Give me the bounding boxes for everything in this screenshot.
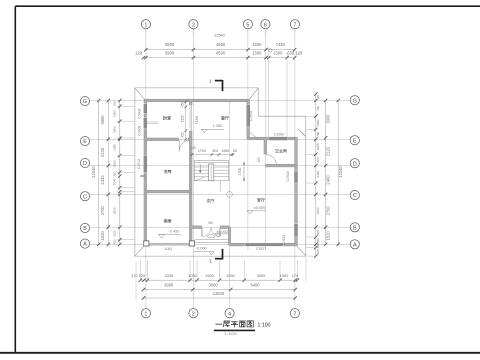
svg-text:4500: 4500: [216, 42, 226, 47]
right extension stubs: [306, 116, 317, 256]
svg-text:C: C: [353, 193, 357, 199]
axis bubbles bottom: [141, 309, 299, 318]
rolling door JLM: [149, 243, 189, 245]
svg-text:2430: 2430: [100, 175, 105, 185]
svg-text:E: E: [83, 139, 87, 145]
bottom dim row2: [144, 289, 296, 291]
svg-text:630: 630: [287, 50, 295, 55]
svg-text:120: 120: [316, 94, 320, 99]
svg-text:1350: 1350: [113, 110, 117, 117]
svg-text:3000: 3000: [257, 273, 266, 278]
window C0608 west: [144, 118, 147, 128]
svg-text:C0908: C0908: [249, 111, 253, 121]
window C0908 west: [144, 104, 147, 113]
svg-text:C1512: C1512: [137, 159, 141, 169]
svg-text:1050: 1050: [188, 273, 197, 278]
svg-text:-0.450: -0.450: [169, 230, 180, 234]
svg-text:3000: 3000: [209, 282, 219, 287]
svg-text:1520: 1520: [326, 231, 331, 241]
bottom extension stubs: [136, 257, 306, 299]
svg-text:1500: 1500: [252, 50, 262, 55]
svg-text:2: 2: [192, 311, 195, 317]
grid lines: [90, 29, 351, 309]
door on E wall arc: [179, 140, 191, 152]
wall: hall west x=190.7 lower: [189, 139, 192, 245]
svg-text:7430: 7430: [276, 42, 286, 47]
svg-text:C: C: [83, 194, 87, 200]
axis bubbles top: [141, 20, 299, 33]
svg-text:2700: 2700: [326, 206, 331, 216]
svg-text:330: 330: [113, 171, 117, 176]
sliding door TLM2: [190, 105, 191, 131]
window C0918 east: [295, 172, 298, 183]
svg-text:A: A: [83, 242, 87, 248]
svg-text:1:100: 1:100: [258, 323, 271, 329]
wall stub left y=176: [140, 175, 145, 177]
svg-text:12240: 12240: [338, 166, 343, 178]
svg-text:1500: 1500: [113, 126, 117, 133]
svg-text:1850: 1850: [316, 119, 320, 126]
wall: bathroom south y=165.6: [265, 164, 297, 167]
room label dining: [221, 116, 228, 119]
svg-text:1700: 1700: [198, 149, 206, 153]
room label study: [164, 170, 171, 173]
svg-text:B: B: [83, 226, 87, 232]
left dim total 12240: [98, 101, 100, 245]
interior dim 1700 vertical: [238, 162, 245, 182]
top extension stubs: [269, 47, 287, 139]
svg-text:C1506: C1506: [274, 133, 284, 137]
porch steps: [195, 239, 228, 242]
top dim row2: [144, 57, 295, 59]
svg-text:1520: 1520: [100, 231, 105, 241]
svg-text:600: 600: [212, 149, 218, 153]
svg-text:5400: 5400: [250, 282, 260, 287]
svg-text:7: 7: [293, 311, 296, 317]
svg-text:3560: 3560: [100, 115, 105, 125]
svg-text:510: 510: [113, 101, 117, 106]
node circle C4: [227, 192, 233, 198]
eave outline: [135, 88, 306, 256]
svg-text:1.260: 1.260: [213, 124, 223, 128]
svg-text:D: D: [353, 161, 357, 167]
svg-text:5900: 5900: [165, 42, 175, 47]
svg-text:1500: 1500: [205, 273, 214, 278]
svg-text:6: 6: [264, 22, 267, 28]
svg-text:2625: 2625: [316, 143, 320, 150]
svg-text:750: 750: [316, 131, 320, 136]
room label hall: [207, 199, 214, 202]
wall: east-wing north y=138.5: [248, 137, 297, 140]
svg-text:3300: 3300: [326, 114, 331, 124]
svg-text:±0.000: ±0.000: [216, 230, 228, 234]
svg-text:1120: 1120: [113, 230, 117, 237]
wall: E-axis interior y=139.3: [144, 138, 192, 141]
svg-text:2900: 2900: [316, 207, 320, 214]
svg-text:M3: M3: [257, 157, 261, 162]
interior dim 1700/600/1080/60: [191, 146, 237, 156]
right dim mid chain: [325, 101, 327, 245]
svg-text:A: A: [353, 242, 357, 248]
room label bedroom: [163, 116, 170, 119]
svg-text:4: 4: [228, 311, 231, 317]
wall: garage/study divider y=191.6: [144, 190, 192, 193]
svg-text:5: 5: [246, 22, 249, 28]
door M3 leaf+arc: [265, 154, 276, 165]
svg-text:1500: 1500: [280, 273, 289, 278]
svg-text:120: 120: [295, 50, 303, 55]
svg-text:2: 2: [192, 22, 195, 28]
top dim row1: [146, 49, 295, 51]
bottom dim row3: [144, 297, 296, 299]
svg-text:12540: 12540: [213, 291, 225, 296]
svg-text:1080: 1080: [221, 149, 229, 153]
stair: [194, 161, 228, 192]
window C0908 NE: [247, 105, 257, 138]
svg-text:G: G: [353, 98, 357, 104]
svg-text:400: 400: [316, 157, 320, 162]
bottom dim row1: [140, 279, 297, 281]
svg-text:JLM1: JLM1: [164, 247, 172, 251]
left dim inner chain: [119, 101, 121, 245]
section mark 1 bottom: [209, 249, 223, 264]
svg-text:3330: 3330: [165, 273, 174, 278]
svg-text:G: G: [83, 99, 87, 105]
svg-text:C0608: C0608: [138, 126, 142, 136]
window C1512 west: [144, 156, 147, 172]
svg-text:120: 120: [135, 50, 143, 55]
svg-text:120: 120: [139, 273, 146, 278]
svg-text:2120: 2120: [181, 115, 185, 122]
svg-text:170: 170: [131, 273, 138, 278]
svg-text:3900: 3900: [164, 282, 174, 287]
wall: hall south B-axis: [191, 226, 231, 245]
svg-text:450: 450: [181, 101, 185, 107]
svg-text:2920: 2920: [113, 207, 117, 214]
svg-text:1: 1: [209, 259, 212, 264]
door M0 double leaves: [202, 228, 220, 237]
svg-text:C0915: C0915: [282, 235, 286, 245]
left extension stubs: [117, 106, 136, 240]
svg-text:750: 750: [316, 105, 320, 110]
room label garage: [164, 219, 172, 223]
svg-text:4500: 4500: [216, 50, 226, 55]
window C3327: [245, 243, 282, 246]
svg-text:1:100: 1:100: [224, 332, 237, 336]
wall: north G-axis: [144, 99, 249, 102]
svg-text:E: E: [353, 138, 357, 144]
svg-text:-0.600: -0.600: [196, 247, 207, 251]
svg-text:2120: 2120: [100, 147, 105, 157]
svg-text:M0: M0: [208, 221, 213, 225]
svg-text:D: D: [83, 161, 87, 167]
svg-text:1500: 1500: [113, 160, 117, 167]
window C0915 east: [295, 224, 298, 236]
svg-text:TLM2: TLM2: [195, 116, 199, 125]
svg-text:800: 800: [316, 229, 320, 234]
svg-text:5900: 5900: [165, 50, 175, 55]
wall: east exterior x=296: [295, 137, 298, 245]
wall: living south A-axis: [229, 243, 297, 246]
room label living: [257, 198, 264, 201]
svg-text:1: 1: [144, 311, 147, 317]
svg-text:170: 170: [292, 273, 299, 278]
window C1506: [269, 137, 287, 140]
svg-text:1500: 1500: [273, 50, 283, 55]
svg-text:2700: 2700: [100, 206, 105, 216]
svg-text:7: 7: [293, 22, 296, 28]
svg-text:120: 120: [316, 249, 320, 254]
interior dim 450/2120/420: [181, 101, 188, 141]
axis bubbles left: [80, 97, 89, 249]
svg-text:420: 420: [113, 239, 117, 244]
wall: TLM2 partition x=190.7 upper: [189, 101, 192, 140]
wall: NE vertical x=248.7: [247, 99, 250, 139]
svg-text:B: B: [353, 225, 357, 231]
right dim total 12240: [337, 101, 339, 245]
svg-text:60: 60: [233, 149, 237, 153]
svg-text:12540: 12540: [214, 33, 225, 37]
left dim mid chain: [107, 101, 109, 245]
title: [214, 321, 271, 336]
svg-text:C0908: C0908: [138, 108, 142, 118]
svg-text:360: 360: [316, 243, 320, 248]
svg-text:C3327: C3327: [256, 247, 266, 251]
svg-text:1040: 1040: [113, 178, 117, 185]
room label bath: [275, 149, 286, 152]
svg-text:1450: 1450: [113, 144, 117, 151]
right dim inner chain: [315, 94, 317, 256]
axis bubbles right: [350, 96, 359, 249]
svg-text:2400: 2400: [326, 175, 331, 185]
wall: bathroom west x=265.3: [264, 139, 267, 154]
svg-text:±0.000: ±0.000: [254, 206, 266, 210]
svg-text:1: 1: [209, 79, 212, 84]
svg-text:820: 820: [316, 238, 320, 243]
svg-text:C0918: C0918: [286, 171, 290, 181]
svg-text:M5: M5: [191, 146, 196, 150]
garage corner columns: [144, 241, 195, 246]
svg-text:1500: 1500: [252, 42, 262, 47]
wall: west exterior: [144, 99, 147, 245]
svg-text:2120: 2120: [326, 146, 331, 156]
svg-text:1: 1: [144, 22, 147, 28]
svg-text:1700: 1700: [238, 168, 242, 176]
svg-text:1650: 1650: [226, 273, 235, 278]
svg-text:2400: 2400: [316, 170, 320, 177]
closet marks: [147, 122, 158, 124]
svg-text:420: 420: [181, 132, 185, 138]
svg-text:12240: 12240: [91, 166, 96, 178]
section mark 1 top: [209, 79, 222, 92]
